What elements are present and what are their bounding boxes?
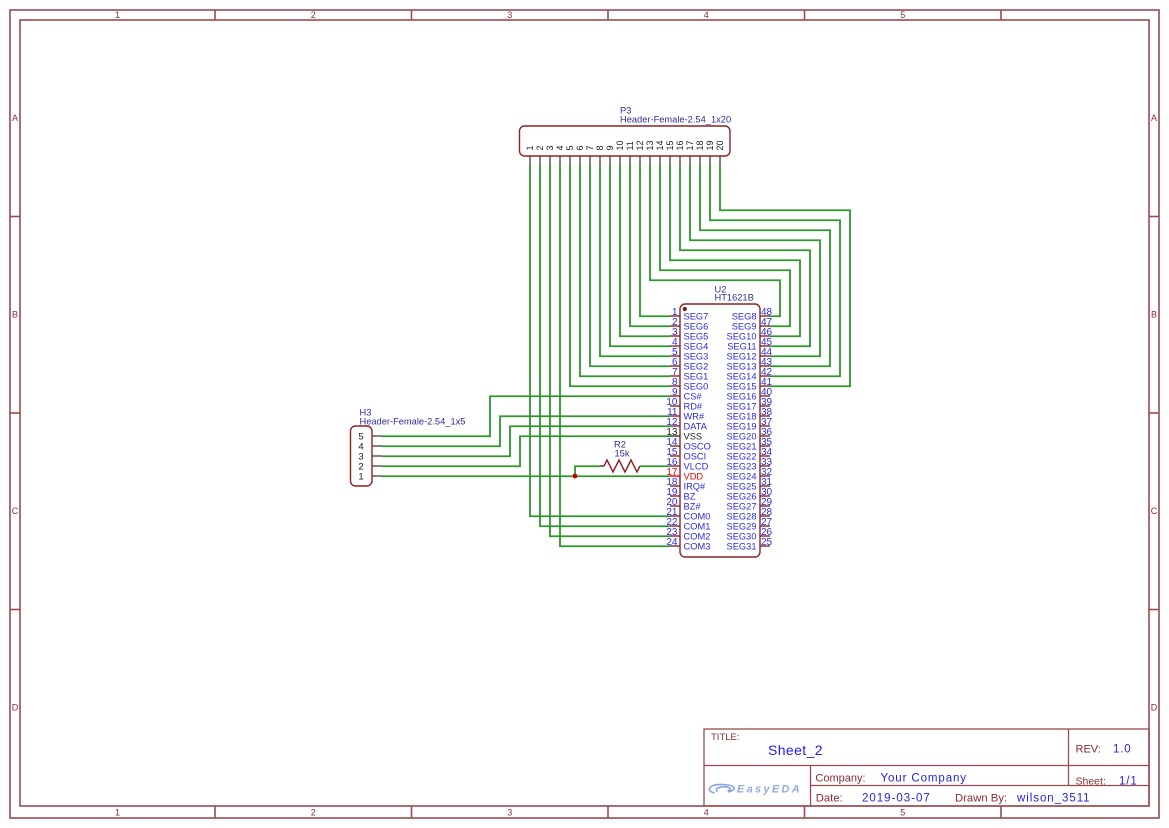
wire P3-18 to U2 SEG13	[700, 166, 830, 367]
P3 pin 3 stub	[549, 157, 551, 167]
svg-text:SEG16: SEG16	[727, 391, 757, 401]
U2 pin 21 stub	[670, 515, 680, 517]
U2 pin 32 stub	[760, 475, 770, 477]
svg-text:SEG3: SEG3	[684, 351, 709, 361]
U2 pin 42 stub	[760, 375, 770, 377]
svg-text:17: 17	[685, 140, 695, 150]
U2 pin 19 stub	[670, 495, 680, 497]
svg-text:13: 13	[645, 140, 655, 150]
svg-text:Sheet_2: Sheet_2	[768, 742, 823, 758]
U2 pin 22 stub	[670, 525, 680, 527]
svg-text:SEG2: SEG2	[684, 361, 709, 371]
svg-text:1: 1	[115, 808, 120, 818]
svg-text:1: 1	[115, 10, 120, 20]
wire branch VDD net to R2 left lead	[575, 466, 600, 476]
svg-text:RD#: RD#	[684, 401, 703, 411]
svg-text:Header-Female-2.54_1x20: Header-Female-2.54_1x20	[620, 115, 731, 125]
svg-text:Header-Female-2.54_1x5: Header-Female-2.54_1x5	[360, 417, 466, 427]
U2 pin 3 stub	[670, 335, 680, 337]
svg-text:7: 7	[585, 145, 595, 150]
P3 pin 20 stub	[719, 157, 721, 167]
svg-text:11: 11	[625, 141, 635, 150]
svg-text:SEG22: SEG22	[727, 451, 757, 461]
U2 pin 31 stub	[760, 485, 770, 487]
P3 pin 12 stub	[639, 157, 641, 167]
U2 pin 13 stub	[670, 435, 680, 437]
svg-text:5: 5	[900, 808, 905, 818]
P3 pin 4 stub	[559, 157, 561, 167]
U2 pin 28 stub	[760, 515, 770, 517]
wire P3-15 to U2 SEG10	[670, 166, 800, 337]
svg-text:COM1: COM1	[684, 521, 711, 531]
U2 pin 41 stub	[760, 385, 770, 387]
P3 pin 9 stub	[609, 157, 611, 167]
svg-text:5: 5	[900, 10, 905, 20]
H3 pin 3 stub	[372, 455, 382, 457]
svg-text:COM3: COM3	[684, 541, 711, 551]
svg-text:A: A	[1151, 113, 1157, 123]
wire P3-10 to U2 SEG5	[620, 166, 670, 337]
svg-text:Company:: Company:	[815, 773, 865, 785]
U2 pin 26 stub	[760, 535, 770, 537]
svg-text:IRQ#: IRQ#	[684, 481, 707, 491]
svg-text:TITLE:: TITLE:	[711, 732, 740, 743]
svg-text:2019-03-07: 2019-03-07	[862, 792, 931, 804]
IC U2 HT1621B body	[680, 304, 760, 557]
wire H3-4 to U2 WR#	[382, 416, 670, 446]
svg-text:SEG21: SEG21	[727, 441, 757, 451]
svg-text:6: 6	[575, 145, 585, 150]
svg-text:SEG13: SEG13	[727, 361, 757, 371]
P3 pin 17 stub	[689, 157, 691, 167]
svg-text:12: 12	[635, 140, 645, 150]
P3 pin 8 stub	[599, 157, 601, 167]
U2 pin 6 stub	[670, 365, 680, 367]
svg-text:SEG8: SEG8	[732, 311, 757, 321]
svg-text:WR#: WR#	[684, 411, 705, 421]
connector H3 Header-Female-2.54_1x5 body	[351, 426, 373, 486]
U2 pin 36 stub	[760, 435, 770, 437]
junction dot on VDD net	[573, 474, 578, 479]
svg-text:1: 1	[358, 471, 363, 482]
svg-text:20: 20	[715, 140, 725, 150]
svg-text:SEG20: SEG20	[727, 431, 757, 441]
H3 pin 1 stub	[372, 475, 382, 477]
svg-text:4: 4	[704, 808, 709, 818]
wire P3-20 to U2 SEG15	[720, 166, 850, 387]
svg-text:3: 3	[545, 145, 555, 150]
U2 pin 45 stub	[760, 345, 770, 347]
svg-text:VLCD: VLCD	[684, 461, 709, 471]
wire H3-2 to U2 VSS	[382, 436, 670, 466]
U2 pin 18 stub	[670, 485, 680, 487]
svg-text:SEG29: SEG29	[727, 521, 757, 531]
svg-text:D: D	[12, 703, 19, 713]
svg-text:OSCO: OSCO	[684, 441, 711, 451]
svg-text:SEG0: SEG0	[684, 381, 709, 391]
P3 pin 5 stub	[569, 157, 571, 167]
svg-text:BZ: BZ	[684, 491, 696, 501]
svg-text:SEG7: SEG7	[684, 311, 709, 321]
U2 pin 39 stub	[760, 405, 770, 407]
svg-text:VDD: VDD	[684, 471, 704, 481]
svg-text:10: 10	[615, 140, 625, 150]
svg-text:SEG18: SEG18	[727, 411, 757, 421]
svg-text:SEG15: SEG15	[727, 381, 757, 391]
P3 pin 10 stub	[619, 157, 621, 167]
svg-text:COM0: COM0	[684, 511, 711, 521]
P3 pin 14 stub	[659, 157, 661, 167]
wire P3-3 to U2 COM2	[550, 166, 670, 537]
U2 pin 35 stub	[760, 445, 770, 447]
svg-text:Date:: Date:	[816, 792, 843, 804]
svg-text:19: 19	[705, 140, 715, 150]
U2 pin 23 stub	[670, 535, 680, 537]
svg-text:A: A	[12, 113, 18, 123]
svg-text:16: 16	[675, 140, 685, 150]
svg-text:SEG14: SEG14	[727, 371, 757, 381]
U2 pin 11 stub	[670, 415, 680, 417]
svg-text:14: 14	[655, 140, 665, 150]
P3 pin 16 stub	[679, 157, 681, 167]
wire P3-1 to U2 COM0	[530, 166, 670, 517]
svg-text:SEG30: SEG30	[727, 531, 757, 541]
wire P3-8 to U2 SEG3	[600, 166, 670, 357]
svg-text:SEG9: SEG9	[732, 321, 757, 331]
wire P3-6 to U2 SEG1	[580, 166, 670, 377]
wire P3-2 to U2 COM1	[540, 166, 670, 527]
U2 pin 38 stub	[760, 415, 770, 417]
svg-text:3: 3	[507, 808, 512, 818]
svg-text:15k: 15k	[615, 449, 630, 459]
svg-text:4: 4	[555, 145, 565, 150]
U2 pin 27 stub	[760, 525, 770, 527]
U2 pin 5 stub	[670, 355, 680, 357]
U2 pin 44 stub	[760, 355, 770, 357]
U2 pin 43 stub	[760, 365, 770, 367]
wire H3-1 to U2 VDD	[382, 475, 670, 477]
svg-text:VSS: VSS	[684, 431, 703, 441]
svg-text:SEG11: SEG11	[727, 341, 756, 351]
svg-text:Drawn By:: Drawn By:	[955, 792, 1007, 804]
wire P3-14 to U2 SEG9	[660, 166, 790, 327]
P3 pin 13 stub	[649, 157, 651, 167]
U2 pin 29 stub	[760, 505, 770, 507]
svg-text:SEG4: SEG4	[684, 341, 709, 351]
svg-text:C: C	[12, 506, 19, 516]
svg-text:2: 2	[311, 10, 316, 20]
svg-text:4: 4	[704, 10, 709, 20]
svg-text:2: 2	[535, 145, 545, 150]
wire P3-17 to U2 SEG12	[690, 166, 820, 357]
wire P3-4 to U2 COM3	[560, 166, 670, 547]
svg-text:Sheet:: Sheet:	[1076, 776, 1106, 788]
P3 pin 11 stub	[629, 157, 631, 167]
svg-text:OSCI: OSCI	[684, 451, 707, 461]
wire P3-9 to U2 SEG4	[610, 166, 670, 347]
svg-text:SEG23: SEG23	[727, 461, 757, 471]
U2 pin 7 stub	[670, 375, 680, 377]
wire P3-11 to U2 SEG6	[630, 166, 670, 327]
U2 pin 33 stub	[760, 465, 770, 467]
P3 pin 15 stub	[669, 157, 671, 167]
svg-text:8: 8	[595, 145, 605, 150]
svg-text:SEG24: SEG24	[727, 471, 757, 481]
P3 pin 18 stub	[699, 157, 701, 167]
svg-text:3: 3	[507, 10, 512, 20]
U2 pin 8 stub	[670, 385, 680, 387]
svg-text:COM2: COM2	[684, 531, 711, 541]
svg-text:SEG25: SEG25	[727, 481, 757, 491]
svg-text:Your Company: Your Company	[881, 773, 967, 785]
U2 pin 34 stub	[760, 455, 770, 457]
U2 pin 40 stub	[760, 395, 770, 397]
svg-text:REV:: REV:	[1076, 744, 1101, 756]
P3 pin 7 stub	[589, 157, 591, 167]
EasyEDA logo	[709, 784, 734, 792]
U2 pin 30 stub	[760, 495, 770, 497]
svg-text:1.0: 1.0	[1113, 744, 1131, 756]
U2 pin 46 stub	[760, 335, 770, 337]
svg-text:9: 9	[605, 145, 615, 150]
H3 pin 5 stub	[372, 435, 382, 437]
svg-text:B: B	[1151, 310, 1157, 320]
svg-text:wilson_3511: wilson_3511	[1016, 792, 1091, 804]
H3 pin 4 stub	[372, 445, 382, 447]
svg-text:SEG5: SEG5	[684, 331, 709, 341]
wire P3-5 to U2 SEG0	[570, 166, 670, 387]
svg-text:C: C	[1151, 506, 1158, 516]
U2 pin 10 stub	[670, 405, 680, 407]
svg-text:SEG17: SEG17	[727, 401, 757, 411]
title block lines	[704, 729, 1149, 806]
U2 pin 17 stub	[670, 475, 680, 477]
svg-text:SEG27: SEG27	[727, 501, 757, 511]
svg-text:SEG19: SEG19	[727, 421, 757, 431]
U2 pin 48 stub	[760, 315, 770, 317]
wire P3-16 to U2 SEG11	[680, 166, 810, 347]
svg-text:1/1: 1/1	[1119, 776, 1138, 788]
svg-text:B: B	[12, 310, 18, 320]
svg-text:SEG28: SEG28	[727, 511, 757, 521]
svg-text:EasyEDA: EasyEDA	[737, 784, 802, 796]
svg-text:18: 18	[695, 140, 705, 150]
svg-text:25: 25	[761, 537, 773, 548]
U2 pin 9 stub	[670, 395, 680, 397]
U2 pin 16 stub	[670, 465, 680, 467]
svg-text:DATA: DATA	[684, 421, 708, 431]
P3 pin 6 stub	[579, 157, 581, 167]
U2 pin 2 stub	[670, 325, 680, 327]
H3 pin 2 stub	[372, 465, 382, 467]
P3 pin 2 stub	[539, 157, 541, 167]
U2 pin 1 stub	[670, 315, 680, 317]
svg-text:15: 15	[665, 140, 675, 150]
U2 pin 15 stub	[670, 455, 680, 457]
svg-text:1: 1	[525, 145, 535, 150]
wire H3-3 to U2 DATA	[382, 426, 670, 456]
U2 pin-1 marker dot	[683, 307, 687, 311]
resistor R2 15k	[600, 460, 640, 472]
U2 pin 4 stub	[670, 345, 680, 347]
P3 pin 1 stub	[529, 157, 531, 167]
wire H3-5 to U2 CS#	[382, 396, 670, 436]
svg-text:SEG10: SEG10	[727, 331, 757, 341]
svg-text:2: 2	[311, 808, 316, 818]
U2 pin 14 stub	[670, 445, 680, 447]
svg-text:SEG12: SEG12	[727, 351, 757, 361]
U2 pin 20 stub	[670, 505, 680, 507]
wire P3-13 to U2 SEG8	[650, 166, 780, 317]
svg-text:SEG26: SEG26	[727, 491, 757, 501]
P3 pin 19 stub	[709, 157, 711, 167]
U2 pin 47 stub	[760, 325, 770, 327]
svg-text:SEG1: SEG1	[684, 371, 709, 381]
svg-text:CS#: CS#	[684, 391, 703, 401]
svg-text:D: D	[1151, 703, 1158, 713]
connector P3 Header-Female-2.54_1x20 body	[520, 126, 731, 156]
wire P3-19 to U2 SEG14	[710, 166, 840, 377]
svg-text:BZ#: BZ#	[684, 501, 702, 511]
svg-text:HT1621B: HT1621B	[715, 293, 754, 303]
wire P3-12 to U2 SEG7	[640, 166, 670, 317]
wire R2 right lead to U2 VLCD	[640, 465, 670, 467]
U2 pin 25 stub	[760, 545, 770, 547]
svg-text:SEG6: SEG6	[684, 321, 709, 331]
wire P3-7 to U2 SEG2	[590, 166, 670, 367]
U2 pin 37 stub	[760, 425, 770, 427]
svg-text:SEG31: SEG31	[727, 541, 757, 551]
svg-text:5: 5	[565, 145, 575, 150]
U2 pin 12 stub	[670, 425, 680, 427]
U2 pin 24 stub	[670, 545, 680, 547]
